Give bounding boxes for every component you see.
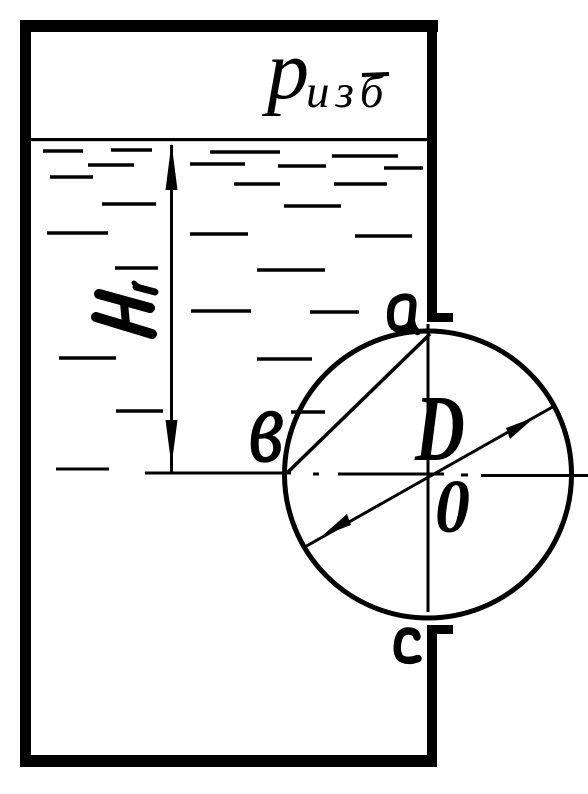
center line dash-dot (56, 469, 588, 476)
label b (Cyrillic ve) (249, 369, 284, 485)
top bar of letter b in izb (362, 74, 389, 75)
diameter D line with arrows (303, 405, 556, 548)
H1 dimension vertical line (170, 145, 173, 472)
H1 dimension base line (145, 472, 291, 475)
water surface line (31, 138, 428, 141)
tank top wall (20, 20, 438, 32)
chord a-b (288, 334, 430, 472)
H1 arrowhead down (166, 420, 178, 466)
flange at node a (427, 313, 453, 322)
svg-text:p: p (262, 24, 309, 117)
tank bottom wall (20, 755, 436, 767)
vertical axis line through circle (427, 324, 430, 612)
label H1 rotated (drawn strokes) (96, 283, 155, 334)
tank left wall (20, 20, 31, 766)
flange at node c (427, 625, 453, 634)
H1 arrowhead up (166, 143, 178, 190)
label c (397, 631, 418, 660)
arrowhead lower-left (322, 514, 351, 536)
circle lid D (285, 331, 572, 618)
label D (414, 375, 465, 480)
svg-text:0: 0 (435, 464, 470, 548)
tank right wall lower segment (427, 625, 437, 767)
svg-text:в: в (249, 369, 284, 485)
water hatching dashes (43, 150, 423, 412)
label O (centre) (435, 464, 470, 548)
label a (390, 297, 417, 332)
arrowhead upper-right (506, 417, 535, 439)
tank right wall upper segment (427, 22, 437, 322)
